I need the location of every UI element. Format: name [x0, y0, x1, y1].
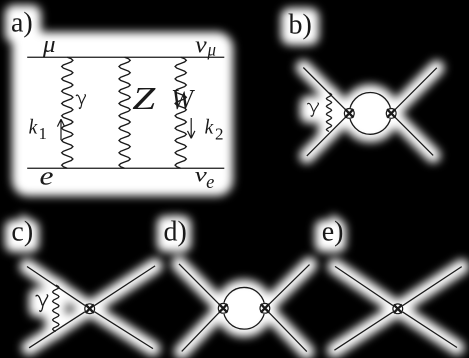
- gamma label b: [308, 103, 319, 116]
- d lower-left leg: [182, 308, 224, 351]
- svg-text:e): e): [322, 216, 344, 247]
- svg-text:b): b): [289, 10, 312, 41]
- vertex b-right (crossed circle): [386, 108, 397, 119]
- photon propagator (gamma wavy): [62, 57, 73, 168]
- c upper-right leg: [90, 266, 155, 309]
- e lower-left leg: [334, 309, 397, 350]
- b lower-right lepton leg: [391, 113, 433, 155]
- momentum arrow k2 down: [188, 118, 195, 138]
- vertex d-right (crossed circle): [259, 303, 270, 314]
- Z boson propagator (wavy): [119, 57, 130, 168]
- svg-text:1: 1: [39, 124, 48, 143]
- b upper-right lepton leg: [391, 68, 437, 114]
- c upper-left leg: [27, 267, 90, 309]
- halo disc d loop: [215, 279, 273, 337]
- d upper-left leg: [179, 264, 223, 308]
- svg-text:e: e: [40, 162, 54, 191]
- b photon squiggle: [326, 93, 331, 132]
- svg-text:ν: ν: [195, 32, 207, 58]
- halo for gamma label b: [300, 96, 326, 123]
- momentum arrow k1 up: [57, 119, 64, 140]
- svg-text:k: k: [205, 115, 214, 139]
- svg-text:c): c): [11, 216, 33, 247]
- svg-text:e: e: [206, 173, 214, 193]
- halo for label b): [281, 8, 319, 45]
- e upper-right leg: [398, 267, 462, 309]
- gamma label a: [76, 95, 85, 109]
- e upper-left leg: [335, 266, 398, 308]
- svg-text:d): d): [164, 216, 187, 247]
- electron line (bottom): [27, 167, 224, 169]
- svg-text:k: k: [29, 115, 38, 139]
- e lower-right leg: [398, 309, 457, 348]
- vertex b-left (crossed circle): [344, 108, 355, 119]
- W boson propagator (wavy): [175, 57, 186, 168]
- c lower-right leg: [90, 309, 153, 349]
- halo for label c): [5, 220, 39, 252]
- b lower-left lepton leg: [307, 113, 350, 155]
- svg-text:W: W: [171, 84, 196, 116]
- c photon squiggle: [53, 285, 59, 332]
- b loop circle: [349, 93, 391, 135]
- halo for gamma label c: [29, 288, 57, 317]
- halo for label e): [315, 220, 346, 252]
- svg-text:μ: μ: [207, 40, 217, 60]
- svg-text:Z: Z: [132, 80, 157, 116]
- halo strokes for diagrams b-e: [27, 68, 462, 352]
- d lower-right leg: [265, 308, 307, 351]
- svg-text:2: 2: [215, 125, 224, 144]
- vertex e (crossed circle): [392, 303, 403, 314]
- muon line (top): [27, 56, 224, 58]
- halo for label a): [5, 5, 41, 43]
- d upper-right leg: [265, 265, 310, 309]
- b upper-left lepton leg: [303, 68, 349, 114]
- vertex c (crossed circle): [84, 303, 95, 314]
- halo disc b loop: [341, 85, 399, 143]
- halo blob for diagram a: [12, 32, 233, 196]
- d loop circle: [223, 287, 265, 329]
- halo for label d): [157, 216, 191, 252]
- svg-text:μ: μ: [42, 32, 56, 58]
- c lower-left leg: [29, 309, 90, 348]
- svg-text:a): a): [11, 7, 33, 38]
- vertex d-left (crossed circle): [218, 303, 229, 314]
- gamma label c: [36, 295, 48, 312]
